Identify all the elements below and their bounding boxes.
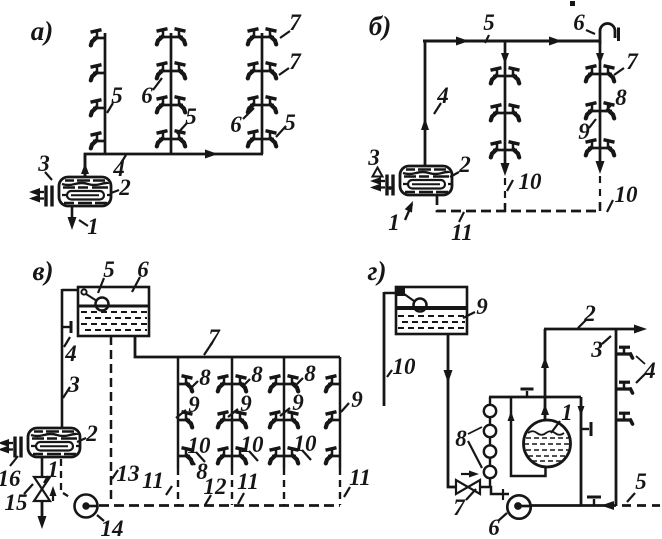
stub [489,437,491,445]
dash tick at riser B [599,202,602,211]
pipe from meter down to valve 15 [41,457,44,478]
svg-text:5: 5 [284,110,296,135]
flow arrow up beside valve [52,489,54,501]
circulation pump 6 [507,495,530,518]
cold riser (right) [615,329,618,506]
svg-text:10: 10 [615,182,639,207]
pump 14 [75,495,98,518]
svg-text:5: 5 [185,104,197,129]
dashed connection to pump 14 [60,459,62,490]
svg-text:в): в) [32,256,53,286]
tap right of battery riser3 level 3 [284,448,299,464]
left tap riser A level 1 [491,68,506,84]
arrow down on feed pipe [444,370,453,383]
battery riser 3 dashed part [283,468,285,505]
arrow down on pipe 1 [68,217,77,230]
right tap riser B level 3 [600,140,615,156]
heater column stub top [489,397,491,405]
svg-text:9: 9 [578,119,590,144]
roof tank 6 [78,287,149,336]
battery riser 1 solid part [177,357,180,468]
tap left of battery riser3 level 2 [270,412,285,428]
dashed stub below riser A [504,178,506,207]
svg-text:6: 6 [141,83,153,108]
left tap riser A level 2 [491,105,506,121]
arrow left on bottom pipe [601,501,614,510]
tap left of battery riser4 level 2 [326,412,341,428]
svg-text:2: 2 [458,152,471,177]
arrow down at bottom of riser A [501,163,510,176]
right tap riser B level 1 [600,66,615,82]
riser 3 [261,33,264,154]
svg-text:6: 6 [230,112,242,137]
vent pipe 6 [600,24,615,44]
left tap riser2 level 2 [157,63,172,79]
tap left of battery riser3 level 3 [270,448,285,464]
arrow up on riser 4 [421,118,429,130]
svg-text:9: 9 [476,294,488,319]
svg-text:7: 7 [289,10,302,35]
svg-text:3: 3 [37,151,50,176]
valve 7 [456,480,468,494]
svg-text:1: 1 [388,210,400,235]
arrow down to street [38,516,47,529]
riser 2 [170,33,173,154]
svg-text:9: 9 [351,387,363,412]
water surface in tank 1 [528,431,564,435]
left tap riser B level 2 [586,103,601,119]
float valve pivot [81,289,86,294]
svg-text:11: 11 [451,220,473,245]
arrow down at top of riser B [596,53,604,64]
svg-text:6: 6 [573,10,585,35]
left tap riser3 level 3 [248,97,263,113]
tap left of battery riser4 level 1 [326,376,341,392]
street connection below valve [41,501,44,524]
right tap riser3 level 3 [262,97,277,113]
water surface in tank [79,305,148,308]
bottom dashed main 12 [99,504,340,507]
arrow right on main (right) [549,37,562,46]
float ball [414,299,427,312]
stub [489,458,491,466]
tap right of battery riser3 level 1 [284,376,299,392]
arrow up on hot riser (upper) [541,357,549,368]
svg-text:б): б) [369,11,391,41]
arrow up on hot riser (lower) [541,404,549,415]
speck [389,187,392,190]
tap right of battery riser2 level 1 [232,376,247,392]
tank inlet stub [384,292,396,295]
battery riser 4 solid part [339,357,342,468]
right tap riser3 level 2 [262,63,277,79]
left tap riser3 level 4 [248,131,263,147]
right tap riser2 level 3 [171,97,186,113]
right tap riser A level 2 [505,105,520,121]
hot riser from heater tank [544,329,547,420]
right tap riser3 level 1 [262,29,277,45]
svg-text:14: 14 [101,516,124,539]
battery riser 4 dashed part [339,468,341,505]
svg-text:5: 5 [103,257,115,282]
right tap riser2 level 4 [171,131,186,147]
arrow down on return pipe [578,406,585,416]
left tap riser2 level 4 [157,131,172,147]
overflow pipe 10 [383,292,386,406]
svg-text:8: 8 [455,426,467,451]
tap left of battery riser2 level 3 [218,448,233,464]
left tap riser3 level 1 [248,29,263,45]
spare dashed pipe 13 from tank [110,336,113,503]
tap right of battery riser1 level 2 [178,412,193,428]
arrow up on loop [508,411,515,421]
svg-text:1: 1 [561,400,573,425]
svg-text:16: 16 [0,466,21,491]
svg-text:5: 5 [483,10,495,35]
supply pipe 3 from meter to tank [61,289,64,428]
water meter unit 2 with street inlet flanges [29,177,111,207]
arrow right on main (left) [456,37,469,46]
left tap riser3 level 2 [248,63,263,79]
bottom cold water pipe [530,504,616,507]
stub to suction line [489,478,491,487]
water hatching [398,315,465,317]
right tap riser2 level 1 [171,29,186,45]
battery riser 2 solid part [231,357,234,468]
left tap riser B level 3 [586,140,601,156]
tap right of battery riser2 level 3 [232,448,247,464]
pipe from valve to pump [480,487,509,494]
battery riser 3 solid part [283,357,286,468]
svg-text:11: 11 [349,465,371,490]
arrow down at bottom of riser B [596,161,605,174]
svg-text:11: 11 [237,469,259,494]
svg-text:9: 9 [240,391,252,416]
outlet pipe 1 down from meter [71,206,74,225]
arrow down at top of riser A [501,53,509,64]
tap on riser1 level 2 [91,65,106,81]
heater element circle 2 [484,425,496,437]
svg-text:6: 6 [488,515,500,539]
hot water main 2 [544,328,642,331]
stand pipe B [599,41,602,161]
svg-text:9: 9 [292,390,304,415]
water hatching in tank [81,311,147,313]
left tap riser A level 3 [491,142,506,158]
heater element circle 3 [484,445,496,457]
svg-text:10: 10 [393,354,417,379]
speck top right [570,1,575,6]
gate valve 15 [34,477,50,489]
tap on riser1 level 1 [91,30,106,46]
water meter unit 2 [370,166,452,196]
svg-text:8: 8 [304,361,316,386]
arrow right on main pipe [205,150,218,159]
riser from meter up to main [84,154,87,177]
left tap riser2 level 3 [157,97,172,113]
future sewer dashed line 11 [437,195,601,211]
svg-text:2: 2 [85,421,98,446]
return pipe right [580,397,583,505]
svg-text:8: 8 [196,459,208,484]
tap left of battery riser3 level 1 [270,376,285,392]
svg-text:г): г) [368,256,387,286]
right tap riser3 level 4 [262,131,277,147]
svg-text:8: 8 [615,85,627,110]
battery riser 1 dashed part [177,468,179,505]
tank inlet stub [62,289,78,292]
valve on return pipe [581,428,589,430]
battery riser 2 dashed part [231,468,233,505]
stand pipe A [504,41,507,163]
tick on suction pipe [502,489,504,500]
main distribution pipe 4 [85,154,263,176]
water meter unit 2 [0,428,80,458]
svg-text:8: 8 [199,365,211,390]
water hatching in tank 1 [526,437,569,439]
svg-text:8: 8 [251,362,263,387]
hot water tank 1 [524,420,571,467]
cold feed pipe from tank [448,334,456,487]
svg-text:7: 7 [626,49,639,74]
heater circulation loop [511,397,546,476]
tap on riser1 level 4 [91,133,106,149]
svg-text:11: 11 [142,468,164,493]
draw-off valve 2 on cold riser [616,382,633,393]
draw-off valve 1 on cold riser [616,347,633,358]
arrow up into main [81,163,89,174]
svg-text:10: 10 [519,169,543,194]
stand pipe 5 (riser 1) [104,33,107,154]
svg-text:4: 4 [436,83,449,108]
water surface band [396,306,467,310]
right tap riser A level 3 [505,142,520,158]
tap left of battery riser2 level 1 [218,376,233,392]
dashed stub below riser B [599,176,601,207]
float ball 5 [96,298,109,311]
svg-text:7: 7 [289,49,302,74]
flow arrow above valve 7 [461,473,474,475]
right tap riser2 level 2 [171,63,186,79]
float fitting [396,287,405,296]
float lever [400,291,414,301]
street main dashed 5 [622,504,660,507]
left tap riser B level 1 [586,66,601,82]
heater top pipe [489,396,581,399]
float lever [86,294,97,301]
arrow right on main 2 [634,325,647,334]
tap left of battery riser4 level 3 [326,448,341,464]
supply riser 4 from meter to top main [424,41,427,166]
right tap riser B level 2 [600,103,615,119]
svg-text:3: 3 [67,372,80,397]
tap left of battery riser2 level 2 [218,412,233,428]
svg-text:3: 3 [590,337,603,362]
tap right of battery riser2 level 2 [232,412,247,428]
tap right of battery riser1 level 3 [178,448,193,464]
svg-text:7: 7 [453,495,466,520]
tank outlet pipe to taps main 7 [135,336,340,357]
valve on heater top pipe [526,391,528,397]
heater element circle 4 [484,466,496,478]
right tap riser A level 1 [505,68,520,84]
dash tick at riser A [504,203,507,212]
draw-off valve 3 on cold riser [616,413,633,424]
tap right of battery riser3 level 2 [284,412,299,428]
svg-text:5: 5 [635,469,647,494]
air valve triangle on inlet [373,168,383,177]
svg-text:а): а) [31,16,54,46]
svg-text:4: 4 [643,358,656,383]
stub [489,417,491,425]
vent end bar [617,28,620,42]
heater element circle 1 [484,405,496,417]
feed tank 9 [396,287,467,334]
tap right of battery riser1 level 1 [178,376,193,392]
left tap riser2 level 1 [157,29,172,45]
valve 4 on pipe 3 [62,326,70,328]
svg-text:1: 1 [87,214,99,239]
svg-text:9: 9 [188,392,200,417]
valve on bottom pipe [593,499,595,505]
inlet arrow 1 into meter [405,204,412,220]
top distribution main 5 [423,40,601,43]
svg-text:13: 13 [117,461,140,486]
svg-text:3: 3 [367,145,380,170]
tap on riser1 level 3 [91,100,106,116]
